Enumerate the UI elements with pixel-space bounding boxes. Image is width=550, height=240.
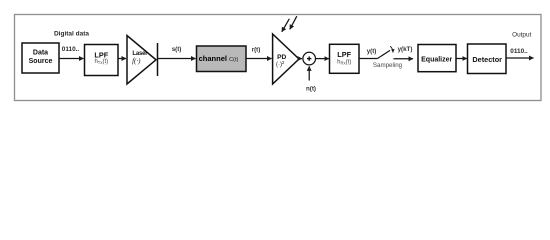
frame border — [15, 15, 542, 101]
svg-text:Output: Output — [512, 32, 531, 39]
svg-text:hRx(t): hRx(t) — [337, 60, 351, 66]
wire PD to adder — [298, 58, 302, 60]
svg-text:Digital data: Digital data — [54, 31, 89, 38]
block Data Source — [22, 43, 59, 73]
svg-text:0110..: 0110.. — [510, 48, 528, 55]
noise n(t) arrow — [308, 66, 310, 80]
svg-text:Sampeling: Sampeling — [373, 62, 403, 69]
svg-text:r(t): r(t) — [252, 47, 261, 54]
light arrow 1 — [282, 19, 290, 32]
block Equalizer — [418, 45, 456, 72]
adder (summing node) — [303, 52, 316, 65]
wire Data Source to LPF — [59, 58, 84, 60]
svg-text:hTx(t): hTx(t) — [94, 59, 108, 65]
sampler switch arm — [378, 50, 391, 58]
svg-text:LPF: LPF — [94, 51, 108, 60]
svg-text:Source: Source — [29, 58, 53, 65]
block channel — [197, 46, 247, 72]
svg-text:f(·): f(·) — [132, 57, 141, 65]
svg-text:Laser: Laser — [132, 51, 148, 57]
wire Laser to channel — [158, 58, 196, 60]
laser facet bar — [157, 43, 159, 76]
svg-text:0110..: 0110.. — [62, 46, 80, 53]
wire LPF rx to sampler — [359, 58, 378, 60]
block LPF tx — [85, 45, 119, 76]
svg-text:n(t): n(t) — [306, 86, 316, 93]
svg-text:channel: channel — [199, 54, 227, 63]
svg-text:Detector: Detector — [472, 55, 502, 64]
svg-text:LPF: LPF — [337, 50, 351, 59]
sampler closing arrow — [390, 46, 393, 52]
wire LPF to Laser — [118, 58, 126, 60]
wire Detector to output — [506, 57, 534, 59]
block Detector — [468, 44, 507, 74]
wire sampler to Equalizer — [394, 58, 414, 60]
photodiode PD triangle — [273, 34, 299, 84]
svg-text:Data: Data — [33, 49, 48, 56]
svg-text:s(t): s(t) — [172, 46, 182, 53]
svg-text:y(t): y(t) — [367, 48, 377, 55]
wire Equalizer to Detector — [456, 58, 467, 60]
laser triangle — [127, 36, 156, 85]
wire adder to LPF rx — [316, 58, 329, 60]
block LPF rx — [330, 44, 360, 73]
light arrow 2 — [290, 16, 297, 29]
svg-text:y(kT): y(kT) — [398, 46, 413, 53]
svg-text:C(t): C(t) — [229, 57, 239, 63]
wire channel to PD — [246, 58, 272, 60]
svg-text:Equalizer: Equalizer — [421, 56, 452, 63]
